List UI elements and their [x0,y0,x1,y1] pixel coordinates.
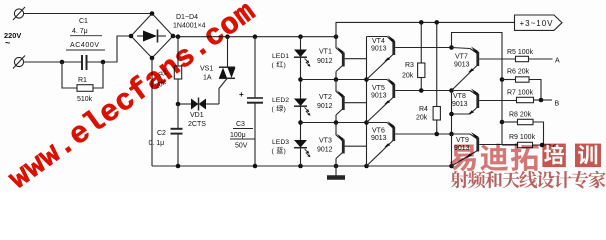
svg-text:VD1: VD1 [190,112,204,119]
watermark yidipai line1 [450,143,539,171]
resistor R3 [418,22,425,90]
node VT9 corner [449,132,454,137]
label LED2 green [272,97,290,113]
transistor VT6 [367,121,452,166]
LED1 [294,50,311,67]
svg-text:R3: R3 [405,62,414,69]
label R3 20k [402,62,414,80]
node R3 top [419,20,424,25]
svg-text:9012: 9012 [317,147,333,154]
svg-text:AC400V: AC400V [70,42,99,49]
node row3 mid [364,120,369,125]
wire row3 [301,122,367,124]
label C1 value [70,18,99,49]
transistor VT1 [336,47,367,80]
node C1 right [101,60,106,65]
svg-text:R8 20k: R8 20k [509,112,532,119]
node C1 left [60,60,65,65]
svg-text:50V: 50V [235,143,248,150]
svg-text:): ) [284,148,286,155]
svg-text:(: ( [272,106,275,113]
node C3 top [253,34,258,39]
label VT8 9013 [452,93,468,108]
resistor R1 [62,62,103,91]
wire plus rail y37 [173,36,336,38]
label VT6 9013 [371,128,387,143]
svg-text:0. 1μ: 0. 1μ [149,140,165,147]
capacitor C1 [82,55,87,70]
label R1 [77,77,93,103]
terminal B [555,101,560,108]
node row2 LED [298,77,303,82]
svg-text:VT8: VT8 [453,93,466,100]
label C2 0.1u [149,130,167,147]
label VD1 2CTS [188,112,206,128]
label R6 20k [507,69,530,76]
node VT9 bottom [449,164,454,169]
node C junction [540,143,545,148]
watermark elecfans [3,0,262,197]
svg-text:C3: C3 [236,121,245,128]
svg-text:+3~10V: +3~10V [520,19,554,28]
watermark block pei [542,144,565,168]
label 220V [4,31,21,48]
svg-text:): ) [284,106,286,113]
svg-text:VT2: VT2 [319,94,332,101]
svg-text:9013: 9013 [371,93,387,100]
svg-text:LED2: LED2 [272,97,289,104]
label R2 20k [154,69,169,91]
label C3 100u 50V [230,121,248,150]
svg-text:4. 7μ: 4. 7μ [72,28,88,35]
svg-text:VT6: VT6 [372,128,385,135]
transistor VT8 [452,89,517,135]
svg-text:VT4: VT4 [372,38,385,45]
label VT2 9012 [317,94,333,110]
svg-text:D1~D4: D1~D4 [176,14,198,21]
resistor R6 [502,77,541,100]
svg-text:R7 100k: R7 100k [507,90,534,97]
terminal C [553,145,558,152]
svg-text:LED3: LED3 [272,139,289,146]
svg-text:A: A [555,58,560,65]
label VT4 9013 [371,38,387,53]
svg-text:20k: 20k [402,73,414,80]
wire VT7 collector loop [452,33,503,146]
svg-text:VT9: VT9 [456,137,469,144]
wire bottom rail [152,165,452,167]
node VT8 emitter [449,112,454,117]
bridge rectifier D1~D4 [129,11,176,60]
ground [327,166,345,178]
svg-text:9013: 9013 [371,46,387,53]
node R8 tap [500,120,505,125]
svg-text:1A: 1A [203,75,212,82]
svg-text:R9 100k: R9 100k [509,134,536,141]
label VS1 1A [200,66,213,82]
svg-text:100μ: 100μ [230,132,246,139]
label VT1 9012 [317,49,333,66]
wire VT3 emitter column [335,123,337,136]
label R5 100k [507,49,534,56]
wire bridge bottom column [151,58,153,166]
LED2 [294,99,311,116]
svg-text:9013: 9013 [371,135,387,142]
node C2 bottom [176,164,181,169]
label VT7 9013 [454,54,470,69]
svg-text:VT3: VT3 [319,138,332,145]
node VT1 emitter top [334,34,339,39]
rule under 100u [230,138,255,140]
node VT8 corner [449,88,454,93]
svg-text:9013: 9013 [452,101,468,108]
svg-text:C1: C1 [79,18,88,25]
svg-text:9012: 9012 [317,58,333,65]
svg-text:C2: C2 [157,130,166,137]
node mid column bottom [364,164,369,169]
label C3 plus [239,90,244,99]
node LED column bottom [298,164,303,169]
svg-text:R6 20k: R6 20k [507,69,530,76]
node row3 LED [298,120,303,125]
node B junction [539,98,544,103]
label VT5 9013 [371,85,387,100]
capacitor C3 [247,37,263,166]
svg-text:B: B [555,101,560,108]
label LED3 blue [272,139,290,155]
resistor R7 [517,97,553,102]
svg-text:~: ~ [5,38,10,48]
wire LED column [300,37,302,166]
watermark block xun [575,144,601,168]
svg-text:+: + [239,90,244,99]
node R6 tap [500,77,505,82]
svg-text:2CTS: 2CTS [188,121,206,128]
label VT3 9012 [317,138,333,154]
wire C1 to bridge [88,36,131,62]
fraction rule under AC400V [66,49,105,51]
wire VT2 emitter column [335,80,337,92]
svg-text:(: ( [272,148,275,155]
LED3 [294,140,311,157]
fraction rule under 4.7u [70,35,102,37]
svg-text:510k: 510k [77,96,93,103]
resistor R9 [502,142,551,147]
terminal J2 [13,56,25,69]
label LED1 red [272,53,290,69]
diac VD1 [178,98,219,111]
label D1~D4 1N4001x4 [173,14,206,30]
thyristor VS1 [219,37,236,104]
label R9 100k [509,134,536,141]
resistor R4 [433,22,440,134]
transistor VT9 [452,132,518,166]
transistor VT3 [336,134,367,166]
svg-text:9012: 9012 [317,103,333,110]
rule under C3 [233,128,253,130]
label VT9 9013 [454,137,470,152]
label R4 20k [416,106,428,122]
svg-text:VT7: VT7 [455,54,468,61]
transistor VT2 [336,90,367,122]
svg-text:VT1: VT1 [319,49,332,56]
svg-text:LED1: LED1 [272,53,289,60]
node C3 bottom [253,164,258,169]
transistor VT4 [367,35,452,80]
terminal A [555,58,560,65]
watermark line2 [451,171,606,189]
node R4 bottom [434,132,439,137]
resistor R2 [174,37,181,104]
svg-text:(: ( [272,62,275,69]
svg-text:R4: R4 [419,106,428,113]
resistor R8 [502,119,544,145]
wire row2 [301,79,367,81]
node LED column top [298,34,303,39]
node VD1 left [176,102,181,107]
node ground [334,164,339,169]
node R3 bottom [419,88,424,93]
wire VT1 emitter column [335,37,337,48]
svg-text:R5 100k: R5 100k [507,49,534,56]
wire top rail [336,22,515,36]
svg-text:9013: 9013 [454,62,470,69]
node VS1 top [225,34,230,39]
power flag +3~10V [515,15,563,30]
node R2 top [176,34,181,39]
capacitor C2 [171,104,183,166]
node VT1 collector [334,77,339,82]
resistor R5 [516,56,553,61]
transistor VT5 [367,78,452,123]
wire top AC line [24,13,152,15]
terminal J1 [13,7,25,20]
wire bottom AC line [24,61,81,63]
node R4 top [434,20,439,25]
svg-text:20k: 20k [416,115,428,122]
svg-text:): ) [284,62,286,69]
transistor VT7 [452,47,516,91]
label R7 100k [507,90,534,97]
svg-text:R1: R1 [78,77,87,84]
svg-text:VT5: VT5 [372,85,385,92]
node VT2 collector [334,120,339,125]
node row2 mid [364,77,369,82]
label R8 20k [509,112,532,119]
wire middle column x366 [366,37,368,167]
node VT7 left [449,45,454,50]
